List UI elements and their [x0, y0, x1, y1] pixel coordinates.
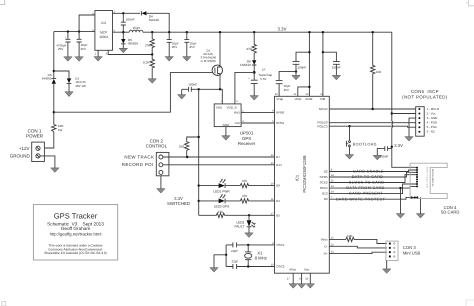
- wire PGEC3: [329, 126, 415, 127]
- svg-text:LED1 PWR: LED1 PWR: [213, 189, 230, 193]
- wire vbus to con3: [354, 239, 387, 243]
- ground Vss1: [297, 273, 305, 288]
- node out-cap1: [168, 31, 170, 33]
- wire card enable: [329, 170, 417, 172]
- node FB divider: [151, 53, 153, 55]
- svg-text:10K: 10K: [376, 70, 382, 74]
- module UP501 box: [214, 100, 244, 127]
- wire record poi: [163, 164, 275, 166]
- svg-text:IN4148: IN4148: [149, 18, 159, 22]
- svg-text:CARD PRESENT: CARD PRESENT: [349, 192, 383, 196]
- svg-text:http://geoffg.net/tracker.html: http://geoffg.net/tracker.html: [50, 231, 102, 236]
- svg-text:CARD ENABLE: CARD ENABLE: [353, 170, 384, 174]
- capacitor 100nF switched: [178, 83, 198, 100]
- node vusb-avdd: [308, 86, 310, 88]
- svg-text:CONTROL: CONTROL: [146, 143, 168, 148]
- svg-text:PIC32MX250F128B: PIC32MX250F128B: [302, 155, 307, 192]
- svg-text:PGEC3: PGEC3: [317, 125, 328, 129]
- svg-text:22pF: 22pF: [231, 249, 238, 253]
- capacitor 10uF Vcap: [276, 72, 296, 97]
- zener D1: [54, 71, 86, 97]
- capacitor 10uF out1: [165, 32, 179, 61]
- svg-text:5.5V: 5.5V: [260, 77, 266, 81]
- svg-text:(NOT POPULATED): (NOT POPULATED): [402, 95, 448, 100]
- IC U1 PIC32MX250F128B box: [275, 96, 330, 273]
- node D0 top: [53, 70, 55, 72]
- ground UP501: [222, 127, 230, 141]
- wire icsp vcc: [392, 113, 416, 115]
- svg-text:RPA4: RPA4: [320, 186, 328, 190]
- node vcap gnd: [295, 70, 297, 72]
- wire TxD to PIC: [241, 122, 274, 124]
- node crystal top: [247, 244, 249, 246]
- node 10K rail: [372, 31, 374, 33]
- capacitor 100nF avdd: [292, 32, 311, 96]
- svg-text:3.3V: 3.3V: [277, 27, 286, 32]
- svg-text:IN4001: IN4001: [42, 77, 52, 81]
- svg-text:47Ω: 47Ω: [246, 47, 252, 51]
- svg-text:1N5819: 1N5819: [240, 63, 251, 67]
- wire new track: [163, 156, 275, 158]
- wire vbus: [329, 238, 346, 240]
- ground IC2 pin2: [94, 50, 102, 61]
- wire boost pin1 line: [113, 13, 170, 32]
- capacitor 10uF out2: [183, 32, 197, 61]
- svg-text:25V: 25V: [190, 45, 195, 49]
- node out-cap2: [186, 31, 188, 33]
- svg-text:B3: B3: [324, 197, 328, 201]
- PIC bottom pin labels: [289, 268, 309, 272]
- CON5 pin labels: [427, 107, 439, 134]
- wire switched rail: [182, 89, 223, 104]
- resistor 10K pullup: [179, 137, 199, 157]
- diode D4 IN4148: [141, 11, 159, 22]
- svg-text:POWER: POWER: [26, 134, 44, 139]
- svg-text:5 - PGC: 5 - PGC: [427, 125, 437, 129]
- svg-text:AVdd: AVdd: [305, 97, 312, 101]
- title block: [33, 205, 117, 260]
- wire 3.3V icsp vertical: [392, 32, 417, 167]
- node Q1 source: [219, 88, 221, 90]
- node LED1: [198, 184, 200, 186]
- resistor 470 LED3: [199, 210, 275, 218]
- svg-text:IC2: IC2: [101, 21, 106, 25]
- svg-text:Vbus: Vbus: [321, 237, 328, 241]
- node write-protect gnd: [399, 187, 401, 189]
- PIC left pin labels: [276, 111, 285, 269]
- resistor R 10ohm 1W: [52, 124, 65, 132]
- node 100nF boost: [122, 12, 124, 14]
- ground AVss: [289, 273, 297, 288]
- connector CON4 SD socket outline: [410, 163, 447, 198]
- svg-text:B14: B14: [276, 163, 282, 167]
- node bootload: [348, 125, 350, 127]
- svg-text:GPS Tracker: GPS Tracker: [54, 211, 98, 220]
- svg-text:15µH: 15µH: [132, 26, 139, 30]
- svg-text:IC1: IC1: [295, 174, 300, 181]
- node crystal bottom: [247, 265, 249, 267]
- svg-text:2 - Vcc: 2 - Vcc: [427, 112, 437, 116]
- connector CON5 ICSP: [402, 89, 448, 136]
- svg-text:100nF: 100nF: [188, 83, 197, 87]
- transistor Q1: [201, 32, 223, 89]
- resistor 470 LED1: [240, 179, 274, 188]
- svg-text:100nF: 100nF: [126, 17, 135, 21]
- node icsp vcc: [391, 112, 393, 114]
- svg-text:GND: GND: [223, 123, 231, 127]
- svg-text:MCLR: MCLR: [319, 107, 328, 111]
- svg-text:VDD: VDD: [216, 106, 223, 110]
- ground SD right: [416, 197, 424, 218]
- inductor 15uH: [129, 26, 143, 32]
- LED LED1 PWR: [199, 179, 241, 194]
- ground CON5: [405, 118, 416, 141]
- frame mark bottom-left: [2, 302, 6, 306]
- node switched 10K: [198, 136, 200, 138]
- wire MCLR: [329, 108, 415, 110]
- node input-rail/10uF: [78, 30, 80, 32]
- crystal X1 8MHz: [245, 245, 267, 267]
- svg-text:100nF: 100nF: [297, 66, 306, 70]
- svg-text:VDD_B: VDD_B: [227, 106, 237, 110]
- diode D5 IN5819: [119, 32, 138, 53]
- PIC top pin labels: [276, 97, 325, 101]
- svg-text:10K: 10K: [179, 144, 185, 148]
- svg-text:RPB0: RPB0: [276, 111, 284, 115]
- LED LED2 GPS: [199, 194, 241, 209]
- wire OSC2: [226, 266, 274, 268]
- svg-text:8.2K: 8.2K: [143, 61, 150, 65]
- svg-text:SuperCap: SuperCap: [259, 73, 273, 77]
- ground Vss2: [306, 273, 314, 288]
- ground CON2: [157, 176, 165, 193]
- node newtrack pullup: [186, 156, 188, 158]
- svg-text:CON 3: CON 3: [403, 245, 416, 250]
- svg-text:RxD: RxD: [234, 111, 241, 115]
- svg-text:1W: 1W: [58, 128, 63, 132]
- svg-text:NEW TRACK: NEW TRACK: [124, 154, 154, 159]
- svg-text:CON5 ISCP: CON5 ISCP: [411, 89, 439, 94]
- capacitor 10uF input: [75, 32, 88, 62]
- ground crystal: [210, 255, 226, 272]
- svg-text:B5: B5: [276, 213, 280, 217]
- wire data from card: [329, 186, 417, 188]
- resistor 27K: [145, 32, 155, 54]
- connector CON2: [122, 139, 169, 176]
- svg-text:25V: 25V: [172, 45, 177, 49]
- SD net labels: [336, 170, 386, 202]
- svg-text:27K: 27K: [145, 44, 151, 48]
- node D5: [122, 31, 124, 33]
- frame mark top-right: [466, 0, 474, 6]
- svg-text:4 - PGD: 4 - PGD: [427, 121, 437, 125]
- wire OSC1: [226, 244, 274, 246]
- svg-text:LED2 GPS: LED2 GPS: [214, 205, 230, 209]
- wire D-: [329, 246, 387, 248]
- svg-text:GPS: GPS: [242, 136, 251, 141]
- connector CON1: [10, 128, 45, 161]
- wire data to card: [329, 172, 417, 177]
- svg-text:16301: 16301: [99, 35, 108, 39]
- svg-text:+12V: +12V: [19, 146, 30, 151]
- capacitor 4700uF: [56, 32, 72, 62]
- diode D0: [42, 73, 56, 84]
- wire clock to card: [329, 175, 417, 183]
- svg-text:3.3V: 3.3V: [394, 143, 403, 148]
- node LED2: [198, 200, 200, 202]
- svg-text:DATA FROM CARD: DATA FROM CARD: [346, 186, 384, 190]
- node icsp 100nF: [391, 146, 393, 148]
- ground CON3: [383, 261, 391, 274]
- node avdd rail: [308, 31, 310, 33]
- capacitor 100nF vdd: [322, 32, 341, 96]
- capacitor 22pF top: [231, 242, 238, 253]
- svg-text:CARD WRITE PROTECT: CARD WRITE PROTECT: [336, 197, 386, 201]
- svg-text:1 - MCLR: 1 - MCLR: [427, 107, 439, 111]
- LED LED3 FAULT: [235, 215, 256, 237]
- svg-text:Receiver: Receiver: [238, 141, 256, 146]
- resistor 470 LED2: [240, 194, 274, 203]
- wire SW output rail 3.3V: [113, 31, 392, 33]
- svg-text:3 - GND: 3 - GND: [427, 116, 438, 120]
- wire card write protect: [329, 197, 417, 199]
- PIC left pin numbers: [271, 109, 274, 266]
- op-amp U1 regulator IC2 MCP16301 box: [92, 11, 115, 56]
- svg-text:SCK2: SCK2: [320, 181, 328, 185]
- svg-text:1F: 1F: [262, 67, 266, 71]
- svg-text:RPB5: RPB5: [320, 175, 328, 179]
- svg-text:IN5819: IN5819: [128, 41, 138, 45]
- svg-text:RECORD POI: RECORD POI: [122, 162, 154, 167]
- connector CON3 Mini USB: [386, 241, 421, 261]
- svg-text:OSC1: OSC1: [276, 243, 285, 247]
- resistor 10K vbus: [346, 234, 354, 242]
- node vdd rail: [322, 31, 324, 33]
- node Q1 drain rail: [219, 31, 221, 33]
- wire D+: [329, 252, 387, 253]
- node bus mid: [225, 254, 227, 256]
- wire left vertical +12V feed: [45, 32, 54, 148]
- svg-text:Mini USB: Mini USB: [403, 250, 421, 255]
- wire gate drive: [54, 73, 213, 113]
- svg-text:B9: B9: [276, 184, 280, 188]
- wire PGED3: [329, 122, 415, 124]
- PIC bottom pin numbers: [287, 278, 309, 281]
- ground CON1: [51, 168, 59, 173]
- CON4 pin dots: [411, 167, 419, 199]
- wire FB pin3: [108, 50, 152, 54]
- svg-text:Vusb: Vusb: [295, 97, 302, 101]
- svg-text:AVss: AVss: [289, 268, 296, 272]
- node gate-feed: [53, 111, 55, 113]
- wire input rail: [54, 31, 95, 33]
- capacitor 100nF boost: [121, 13, 135, 32]
- svg-text:DATA TO CARD: DATA TO CARD: [352, 175, 384, 179]
- svg-text:RPB1: RPB1: [276, 121, 284, 125]
- resistor 47ohm: [246, 32, 256, 60]
- node LED3: [248, 214, 250, 216]
- svg-text:6 - NC: 6 - NC: [427, 130, 435, 134]
- wire RxD to PIC: [241, 111, 274, 113]
- svg-text:CLOCK TO CARD: CLOCK TO CARD: [349, 181, 385, 185]
- svg-text:GROUND: GROUND: [10, 154, 31, 159]
- svg-text:B2: B2: [324, 170, 328, 174]
- wire pin4 riser: [79, 15, 95, 32]
- wire crystal bus: [225, 245, 227, 267]
- ground SD left: [396, 188, 404, 218]
- frame mark top-left: [0, 0, 5, 5]
- svg-text:SD CARD SOCKET: SD CARD SOCKET: [431, 168, 434, 187]
- wire 3.3V switched vertical: [198, 89, 200, 215]
- svg-text:FAULT: FAULT: [235, 225, 245, 229]
- svg-text:470: 470: [242, 179, 247, 183]
- svg-text:D+: D+: [324, 252, 328, 256]
- svg-text:ShareAlike 3.0 Australia (CC B: ShareAlike 3.0 Australia (CC BY-NC-SA 3.…: [44, 251, 106, 255]
- wire vusb jog: [298, 87, 310, 96]
- wire VDD_B feed: [235, 72, 254, 104]
- PIC right pin numbers: [331, 169, 334, 254]
- svg-text:22pf: 22pf: [231, 260, 237, 264]
- svg-text:470: 470: [242, 194, 247, 198]
- node 10K mclr: [372, 108, 374, 110]
- svg-text:Vcap: Vcap: [276, 97, 283, 101]
- resistor 8.2K: [143, 55, 156, 84]
- node switched tap: [198, 88, 200, 90]
- svg-text:B7: B7: [276, 155, 280, 159]
- svg-text:Vss: Vss: [304, 268, 310, 272]
- svg-text:SD CARD: SD CARD: [441, 210, 460, 215]
- svg-text:TxD: TxD: [234, 121, 240, 125]
- wire card present: [329, 184, 417, 194]
- svg-text:Vdd: Vdd: [320, 97, 326, 101]
- capacitor 22pF bottom: [231, 260, 237, 269]
- PIC right pin labels: [317, 107, 328, 255]
- diode D6 1N5819: [240, 60, 256, 73]
- svg-text:25V: 25V: [284, 88, 289, 92]
- svg-text:or MTP3055: or MTP3055: [201, 59, 217, 63]
- svg-text:B4: B4: [276, 199, 280, 203]
- svg-text:D-: D-: [324, 244, 327, 248]
- resistor 10K MCLR pullup: [371, 32, 383, 109]
- node input-rail/4700uF: [67, 30, 69, 32]
- capacitor 1F supercap: [248, 67, 272, 100]
- node supercap: [253, 71, 256, 74]
- switch BOOTLOAD: [345, 126, 376, 159]
- svg-text:B13: B13: [322, 192, 328, 196]
- node 27K top: [151, 31, 153, 33]
- svg-text:25V: 25V: [81, 47, 86, 51]
- svg-text:16V 1W: 16V 1W: [75, 84, 86, 88]
- svg-text:100nF: 100nF: [332, 66, 341, 70]
- svg-text:SWITCHED: SWITCHED: [167, 201, 190, 206]
- wire CON1 ground: [40, 156, 55, 168]
- svg-text:470: 470: [218, 210, 223, 214]
- svg-text:BOOTLOAD: BOOTLOAD: [353, 143, 377, 147]
- frame mark bottom-right: [466, 300, 474, 306]
- PIC top pin numbers: [275, 93, 324, 96]
- svg-text:100nF: 100nF: [380, 155, 389, 159]
- svg-text:25V: 25V: [58, 47, 63, 51]
- capacitor 100nF icsp: [373, 146, 392, 160]
- svg-text:8 MHz: 8 MHz: [255, 255, 267, 260]
- svg-text:OSC2: OSC2: [276, 265, 285, 269]
- node 47ohm top: [253, 31, 255, 33]
- CON4 pin numbers: [427, 167, 429, 189]
- svg-text:10K: 10K: [347, 234, 353, 238]
